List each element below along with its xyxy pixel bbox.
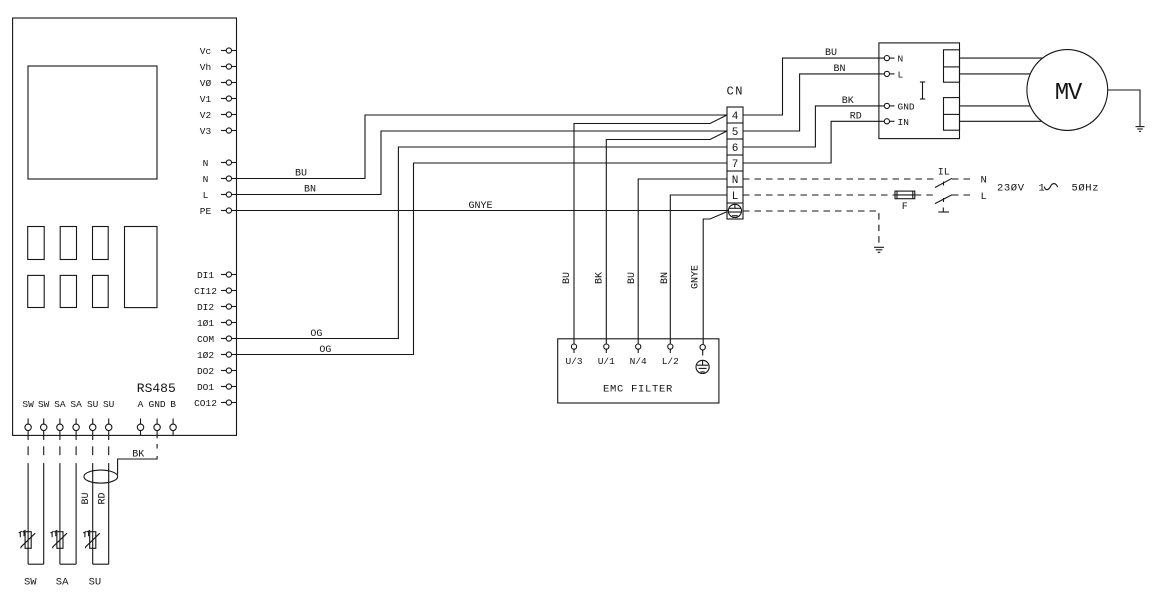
svg-text:V3: V3 [200, 126, 212, 137]
sensor SW wires [28, 463, 44, 564]
motor plug polarising key I [920, 82, 925, 99]
terminal V3 [200, 126, 237, 137]
svg-text:L: L [898, 70, 904, 81]
svg-text:5ØHz: 5ØHz [1072, 183, 1100, 195]
svg-text:CI12: CI12 [194, 286, 217, 297]
svg-text:MV: MV [1055, 80, 1083, 107]
svg-text:IN: IN [898, 117, 909, 128]
thermistor SU [83, 530, 100, 548]
motor plug terminal IN [884, 117, 909, 128]
svg-text:RD: RD [98, 492, 109, 504]
svg-text:BU: BU [825, 48, 837, 59]
switch IL pole N [935, 178, 952, 187]
svg-text:L: L [203, 190, 209, 201]
sensor SU wires [93, 463, 109, 564]
svg-text:B: B [170, 399, 176, 410]
svg-text:EMC FILTER: EMC FILTER [603, 383, 673, 395]
ground symbol PE [874, 247, 884, 252]
button 5 [60, 275, 76, 307]
EMC terminal earth [696, 345, 709, 374]
svg-text:V2: V2 [200, 110, 212, 121]
terminal Vc [200, 46, 237, 57]
wire motor to ground [1108, 90, 1140, 126]
svg-text:BK: BK [132, 449, 144, 460]
svg-text:RD: RD [850, 112, 862, 123]
terminal 101 [197, 318, 237, 329]
terminal CO12 [194, 398, 236, 409]
wire BK CN6 to motor plug GND [743, 96, 884, 147]
svg-text:A: A [138, 399, 144, 410]
svg-text:OG: OG [310, 329, 322, 340]
svg-text:U/1: U/1 [598, 356, 615, 367]
wire BU EMC N/4 to CN N [627, 179, 727, 344]
svg-text:SA: SA [56, 576, 69, 588]
svg-text:GND: GND [149, 399, 166, 410]
svg-text:BK: BK [842, 96, 854, 107]
svg-text:SW: SW [24, 576, 37, 588]
label 1 phase sine [1039, 183, 1058, 195]
ground symbol motor [1136, 127, 1145, 132]
terminal DO1 [197, 382, 237, 393]
button 6 [93, 275, 109, 307]
motor plug terminal GND [884, 102, 915, 113]
wire BU EMC U/3 to CN4 [562, 115, 727, 344]
svg-text:SU: SU [87, 399, 99, 410]
svg-text:N: N [898, 54, 904, 65]
svg-text:N: N [981, 175, 987, 187]
EMC terminal L/2 [662, 344, 679, 367]
svg-text:SW: SW [22, 399, 34, 410]
thermistor SA [51, 530, 68, 548]
motor plug terminal L [884, 70, 903, 81]
sensor cable dash SU2 [108, 446, 110, 455]
terminal V1 [200, 94, 237, 105]
svg-text:DO2: DO2 [197, 366, 214, 377]
wire OG controller COM to CN6 [237, 147, 728, 340]
svg-text:CN: CN [727, 85, 744, 99]
bottom terminal SA2 [70, 399, 82, 440]
svg-text:Vc: Vc [200, 46, 212, 57]
svg-text:5: 5 [732, 127, 739, 139]
svg-text:BN: BN [660, 272, 671, 284]
svg-text:IL: IL [938, 168, 950, 179]
svg-text:GNYE: GNYE [690, 265, 701, 289]
motor plug pin block upper [944, 50, 960, 82]
svg-text:VØ: VØ [200, 78, 212, 89]
motor plug box [879, 43, 960, 139]
wire plug to motor 3 [960, 105, 1033, 107]
dashed mains N wire [743, 178, 934, 180]
wire BU CN4 to motor plug N [743, 48, 884, 115]
svg-text:DO1: DO1 [197, 382, 214, 393]
wire BN EMC L/2 to CN L [660, 195, 727, 344]
wire BK EMC U/1 to CN5 [595, 131, 727, 344]
motor plug pin block lower [944, 98, 960, 131]
motor MV [1027, 50, 1108, 131]
svg-text:N: N [203, 174, 209, 185]
terminal V2 [200, 110, 237, 121]
svg-text:GND: GND [898, 102, 915, 113]
bottom terminal SA1 [54, 399, 66, 440]
terminal V0 [200, 78, 237, 89]
wire BN CN5 to motor plug L [743, 64, 884, 131]
terminal L [203, 190, 237, 201]
sensor cable dash SW2 [43, 446, 45, 455]
svg-text:SU: SU [103, 399, 115, 410]
svg-text:4: 4 [732, 111, 739, 123]
thermistor SW [19, 530, 36, 548]
terminal N2 [203, 174, 237, 185]
svg-text:BK: BK [595, 272, 606, 284]
terminal DI2 [197, 302, 237, 313]
terminal DO2 [197, 366, 237, 377]
svg-text:PE: PE [200, 206, 212, 217]
controller display [28, 66, 157, 179]
svg-text:BU: BU [81, 492, 92, 504]
EMC terminal N/4 [630, 344, 647, 367]
svg-text:DI1: DI1 [197, 270, 214, 281]
svg-text:6: 6 [732, 143, 739, 155]
svg-text:1: 1 [1039, 183, 1045, 195]
dashed mains L wire [743, 194, 895, 196]
button 1 [28, 227, 45, 260]
svg-text:BU: BU [562, 272, 573, 284]
switch IL pole L [935, 195, 952, 204]
svg-text:U/3: U/3 [565, 356, 582, 367]
sensor cable dash SA2 [75, 446, 77, 455]
terminal 102 [197, 350, 237, 361]
CN earth terminal symbol [728, 204, 741, 217]
cable shield oval SU [84, 470, 118, 483]
svg-text:BU: BU [295, 168, 307, 179]
button 4 [28, 275, 45, 307]
svg-text:BU: BU [627, 272, 638, 284]
fuse F [895, 191, 915, 213]
bottom terminal SW2 [38, 399, 50, 440]
terminal Vh [200, 62, 237, 73]
svg-text:BN: BN [304, 184, 316, 195]
EMC filter box [558, 339, 719, 403]
terminal PE [200, 206, 237, 217]
sensor cable dash SU1 [92, 446, 94, 455]
dashed mains PE wire [743, 211, 879, 247]
bottom terminal B [170, 399, 176, 435]
svg-text:CO12: CO12 [194, 398, 217, 409]
svg-text:BN: BN [833, 64, 845, 75]
bottom terminal A [137, 399, 143, 435]
wire RD CN7 to motor plug IN [743, 112, 884, 164]
terminal DI1 [197, 270, 237, 281]
connector CN strip [727, 107, 743, 219]
svg-text:L: L [732, 191, 739, 203]
EMC terminal U/1 [598, 344, 615, 367]
controller unit outline [13, 18, 237, 435]
svg-text:N/4: N/4 [630, 356, 647, 367]
svg-text:L/2: L/2 [662, 356, 679, 367]
svg-text:7: 7 [732, 159, 739, 171]
wire GNYE EMC earth to CN earth [690, 212, 727, 345]
svg-text:N: N [732, 175, 739, 187]
svg-text:1Ø2: 1Ø2 [197, 350, 214, 361]
wire BU controller N to CN4 [237, 115, 728, 179]
svg-text:V1: V1 [200, 94, 212, 105]
svg-text:Vh: Vh [200, 62, 211, 73]
wire BK shield to GND [118, 449, 158, 474]
svg-text:N: N [203, 158, 209, 169]
sensor SA wires [60, 463, 76, 564]
bottom terminal SU2 [103, 399, 115, 440]
svg-text:DI2: DI2 [197, 302, 214, 313]
EMC terminal U/3 [565, 344, 582, 367]
sensor cable dash SA1 [59, 446, 61, 455]
bottom terminal SW1 [22, 399, 34, 440]
svg-text:23ØV: 23ØV [997, 183, 1025, 195]
svg-text:COM: COM [197, 334, 214, 345]
wire plug to motor 1 [960, 57, 1046, 59]
sensor cable dash SW1 [27, 446, 29, 455]
svg-text:SW: SW [38, 399, 50, 410]
terminal N1 [203, 158, 237, 169]
motor plug terminal N [884, 54, 903, 65]
svg-text:SU: SU [89, 576, 102, 588]
wire plug to motor 2 [960, 73, 1033, 75]
wire OG controller 102 to CN7 [237, 163, 728, 356]
svg-text:SA: SA [70, 399, 82, 410]
wire BN controller L to CN5 [237, 131, 728, 195]
svg-text:GNYE: GNYE [468, 201, 492, 212]
button 2 [60, 227, 76, 260]
svg-text:1Ø1: 1Ø1 [197, 318, 214, 329]
svg-text:SA: SA [54, 399, 66, 410]
svg-text:F: F [902, 202, 908, 213]
terminal CI12 [194, 286, 236, 297]
bottom terminal GND [149, 399, 166, 438]
svg-text:L: L [981, 191, 987, 203]
wire GNYE controller PE to CN earth [237, 201, 729, 212]
terminal COM [197, 334, 237, 345]
svg-text:RS485: RS485 [137, 381, 176, 396]
svg-text:OG: OG [319, 345, 331, 356]
button 3 [93, 227, 109, 260]
bottom terminal SU1 [87, 399, 99, 440]
wire plug to motor 4 [960, 120, 1046, 122]
sensor cable dash GND [156, 444, 158, 449]
button large [125, 227, 158, 308]
switch IL earth contact [938, 208, 949, 213]
